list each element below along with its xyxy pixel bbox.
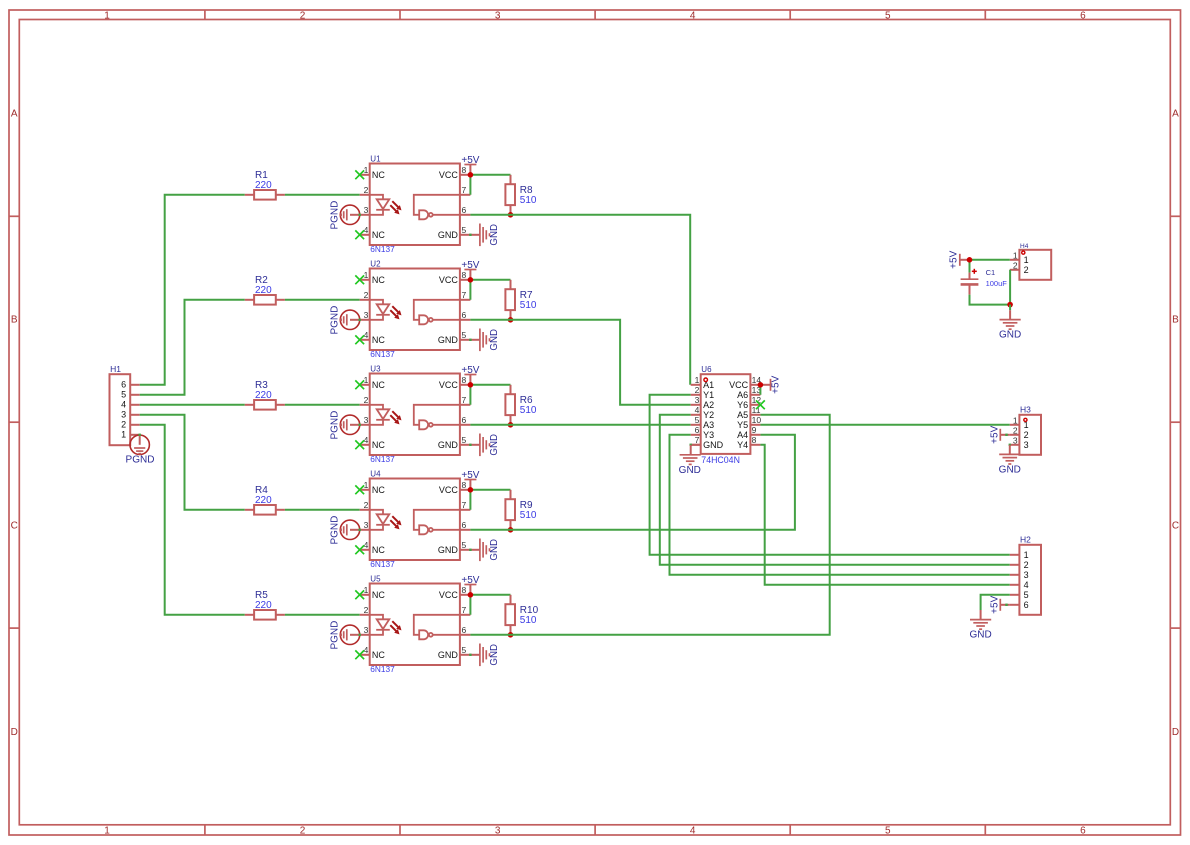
frame row labels bbox=[11, 109, 1180, 738]
svg-text:220: 220 bbox=[255, 600, 272, 611]
ground GND at U5 pin 5 bbox=[469, 644, 500, 667]
resistor R3 bbox=[245, 380, 285, 410]
NC mark U6 pin 12 bbox=[756, 400, 765, 409]
svg-text:GND: GND bbox=[999, 464, 1021, 475]
svg-text:220: 220 bbox=[255, 390, 272, 401]
svg-text:3: 3 bbox=[364, 415, 369, 425]
svg-text:4: 4 bbox=[364, 645, 369, 655]
wire R3 to U3 pin 2 bbox=[285, 404, 360, 406]
connector H1 bbox=[110, 364, 140, 445]
svg-text:GND: GND bbox=[489, 434, 500, 456]
wire net IN2 (H1.5 to R2) bbox=[140, 300, 245, 395]
NC mark U1 pin 4 bbox=[355, 230, 364, 239]
svg-text:2: 2 bbox=[1013, 425, 1018, 435]
svg-text:H4: H4 bbox=[1020, 243, 1029, 250]
svg-text:+5V: +5V bbox=[949, 250, 960, 268]
svg-text:U2: U2 bbox=[370, 260, 381, 269]
svg-text:A4: A4 bbox=[737, 430, 748, 440]
svg-text:GND: GND bbox=[438, 335, 459, 345]
svg-text:A: A bbox=[11, 109, 18, 120]
svg-text:6N137: 6N137 bbox=[370, 664, 395, 674]
svg-text:1: 1 bbox=[1024, 550, 1029, 560]
NC mark U2 pin 4 bbox=[355, 335, 364, 344]
svg-text:5: 5 bbox=[462, 225, 467, 235]
svg-text:2: 2 bbox=[695, 385, 700, 395]
supply +5V at U5 pin 8 bbox=[461, 575, 479, 595]
resistor R10 pullup bbox=[505, 595, 538, 635]
ground PGND at H1 pin 1 bbox=[126, 434, 155, 466]
svg-text:NC: NC bbox=[372, 485, 385, 495]
svg-text:C: C bbox=[11, 521, 18, 532]
svg-text:4: 4 bbox=[690, 825, 696, 836]
svg-text:GND: GND bbox=[489, 224, 500, 246]
svg-text:NC: NC bbox=[372, 335, 385, 345]
svg-text:VCC: VCC bbox=[439, 590, 459, 600]
junction R9 output bbox=[508, 527, 514, 533]
svg-text:Y1: Y1 bbox=[703, 390, 714, 400]
svg-text:GND: GND bbox=[489, 644, 500, 666]
ground GND at U1 pin 5 bbox=[469, 224, 500, 247]
svg-text:4: 4 bbox=[121, 400, 126, 410]
svg-text:A5: A5 bbox=[737, 410, 748, 420]
svg-text:PGND: PGND bbox=[329, 411, 340, 440]
svg-text:2: 2 bbox=[364, 185, 369, 195]
resistor R7 pullup bbox=[505, 280, 537, 320]
svg-text:4: 4 bbox=[1024, 580, 1029, 590]
svg-text:1: 1 bbox=[104, 825, 110, 836]
svg-text:6: 6 bbox=[1080, 10, 1086, 21]
svg-text:3: 3 bbox=[364, 310, 369, 320]
wire net IN4 (H1.3 to R4) bbox=[140, 415, 245, 510]
svg-text:PGND: PGND bbox=[329, 621, 340, 650]
svg-text:7: 7 bbox=[462, 605, 467, 615]
svg-text:C: C bbox=[1172, 521, 1179, 532]
svg-text:5: 5 bbox=[885, 825, 891, 836]
svg-text:PGND: PGND bbox=[126, 455, 155, 466]
resistor R5 bbox=[245, 590, 285, 620]
svg-text:5: 5 bbox=[1024, 590, 1029, 600]
wire net Y4 (U6.8 to H2.4) bbox=[760, 445, 1009, 585]
ground PGND at U1 pin 3 bbox=[329, 201, 361, 230]
svg-text:2: 2 bbox=[1013, 260, 1018, 270]
svg-text:510: 510 bbox=[520, 510, 537, 521]
connector H3 bbox=[1010, 405, 1041, 455]
resistor R4 bbox=[245, 485, 285, 515]
svg-text:GND: GND bbox=[489, 329, 500, 351]
resistor R6 pullup bbox=[505, 385, 537, 425]
ground GND at U3 pin 5 bbox=[469, 434, 500, 457]
svg-text:7: 7 bbox=[462, 185, 467, 195]
svg-text:220: 220 bbox=[255, 495, 272, 506]
svg-text:D: D bbox=[11, 727, 18, 738]
svg-text:4: 4 bbox=[690, 10, 696, 21]
supply +5V at U3 pin 8 bbox=[461, 365, 479, 385]
svg-text:5: 5 bbox=[695, 415, 700, 425]
supply +5V at H2 pin 6 bbox=[990, 595, 1010, 613]
NC mark U5 pin 1 bbox=[355, 590, 364, 599]
svg-text:6N137: 6N137 bbox=[370, 244, 395, 254]
svg-text:4: 4 bbox=[364, 540, 369, 550]
svg-text:4: 4 bbox=[364, 225, 369, 235]
wire net Y2 (U6.4 to H2.2) bbox=[660, 415, 1010, 565]
svg-text:4: 4 bbox=[695, 405, 700, 415]
ground PGND at U3 pin 3 bbox=[329, 411, 361, 440]
optocoupler U5 6N137 bbox=[360, 575, 471, 674]
svg-text:4: 4 bbox=[364, 435, 369, 445]
junction U4 VCC bbox=[468, 487, 474, 493]
ground PGND at U5 pin 3 bbox=[329, 621, 361, 650]
svg-text:NC: NC bbox=[372, 590, 385, 600]
svg-text:NC: NC bbox=[372, 650, 385, 660]
svg-text:2: 2 bbox=[1024, 265, 1029, 275]
svg-text:220: 220 bbox=[255, 180, 272, 191]
wire U6 A6 to +5V bbox=[759, 385, 761, 395]
junction U2 VCC bbox=[468, 277, 474, 283]
svg-text:GND: GND bbox=[438, 440, 459, 450]
svg-text:6: 6 bbox=[1080, 825, 1086, 836]
svg-text:6: 6 bbox=[462, 205, 467, 215]
wire net IN1 (H1.6 to R1) bbox=[140, 195, 245, 385]
svg-text:2: 2 bbox=[300, 10, 306, 21]
svg-text:1: 1 bbox=[1024, 255, 1029, 265]
svg-text:8: 8 bbox=[462, 585, 467, 595]
svg-text:3: 3 bbox=[1013, 435, 1018, 445]
svg-text:VCC: VCC bbox=[439, 170, 459, 180]
svg-text:510: 510 bbox=[520, 195, 537, 206]
svg-text:+5V: +5V bbox=[771, 375, 782, 393]
junction R8 output bbox=[508, 212, 514, 218]
svg-text:5: 5 bbox=[462, 330, 467, 340]
optocoupler U2 6N137 bbox=[360, 260, 471, 359]
svg-text:U6: U6 bbox=[701, 365, 712, 374]
svg-text:H3: H3 bbox=[1020, 405, 1031, 415]
wire +5V to H4.1 bbox=[970, 259, 1010, 261]
svg-text:A3: A3 bbox=[703, 420, 714, 430]
svg-text:Y6: Y6 bbox=[737, 400, 748, 410]
supply +5V at U2 pin 8 bbox=[461, 260, 479, 280]
wire net OUT1 (R8 to U6 A1) bbox=[470, 215, 690, 385]
NC mark U3 pin 4 bbox=[355, 440, 364, 449]
svg-text:C1: C1 bbox=[986, 268, 996, 277]
svg-text:5: 5 bbox=[885, 10, 891, 21]
svg-text:7: 7 bbox=[462, 395, 467, 405]
supply +5V at U6 pin 14 bbox=[760, 375, 781, 393]
wire H2.5 to GND bbox=[981, 595, 1010, 610]
wire net IN5 (H1.2 to R5) bbox=[140, 425, 245, 615]
svg-text:GND: GND bbox=[438, 650, 459, 660]
svg-text:1: 1 bbox=[364, 270, 369, 280]
svg-text:GND: GND bbox=[438, 545, 459, 555]
svg-text:+5V: +5V bbox=[990, 595, 1001, 613]
svg-text:VCC: VCC bbox=[439, 275, 459, 285]
svg-text:PGND: PGND bbox=[329, 516, 340, 545]
svg-text:8: 8 bbox=[462, 375, 467, 385]
svg-text:3: 3 bbox=[364, 520, 369, 530]
svg-text:2: 2 bbox=[300, 825, 306, 836]
junction R10 output bbox=[508, 632, 514, 638]
svg-text:NC: NC bbox=[372, 170, 385, 180]
svg-text:+5V: +5V bbox=[990, 425, 1001, 443]
svg-text:PGND: PGND bbox=[329, 201, 340, 230]
svg-text:6: 6 bbox=[1024, 600, 1029, 610]
junction R7 output bbox=[508, 317, 514, 323]
svg-text:H1: H1 bbox=[110, 364, 121, 374]
svg-text:GND: GND bbox=[703, 440, 724, 450]
wire net OUT4 (R9 to U6 A4) bbox=[470, 435, 795, 530]
svg-text:100uF: 100uF bbox=[986, 279, 1008, 288]
wire +5V to R pullup and U4 pin 7 bbox=[470, 490, 510, 510]
svg-text:H2: H2 bbox=[1020, 535, 1031, 545]
junction U3 VCC bbox=[468, 382, 474, 388]
svg-text:A6: A6 bbox=[737, 390, 748, 400]
svg-text:7: 7 bbox=[462, 500, 467, 510]
wire net Y5 (U6.10 to H3.1) bbox=[760, 424, 1009, 426]
svg-text:GND: GND bbox=[969, 630, 991, 641]
svg-text:B: B bbox=[1172, 315, 1179, 326]
NC mark U4 pin 1 bbox=[355, 485, 364, 494]
svg-text:6: 6 bbox=[695, 425, 700, 435]
svg-text:1: 1 bbox=[1013, 250, 1018, 260]
NC mark U3 pin 1 bbox=[355, 380, 364, 389]
wire +5V to R pullup and U5 pin 7 bbox=[470, 595, 510, 615]
svg-text:U1: U1 bbox=[370, 155, 381, 164]
svg-text:8: 8 bbox=[462, 480, 467, 490]
svg-text:6: 6 bbox=[462, 310, 467, 320]
capacitor C1 100uF bbox=[961, 268, 1008, 295]
svg-text:10: 10 bbox=[752, 415, 762, 425]
svg-text:GND: GND bbox=[679, 465, 701, 476]
svg-text:+5V: +5V bbox=[461, 575, 479, 586]
svg-text:510: 510 bbox=[520, 405, 537, 416]
svg-text:5: 5 bbox=[462, 435, 467, 445]
ground GND at U6 pin 7 bbox=[679, 444, 701, 476]
optocoupler U3 6N137 bbox=[360, 365, 471, 464]
svg-text:NC: NC bbox=[372, 380, 385, 390]
svg-text:1: 1 bbox=[121, 430, 126, 440]
junction U6 VCC bbox=[758, 382, 764, 388]
svg-text:5: 5 bbox=[121, 390, 126, 400]
junction R6 output bbox=[508, 422, 514, 428]
connector H2 bbox=[1010, 535, 1041, 615]
svg-text:6: 6 bbox=[462, 520, 467, 530]
svg-text:7: 7 bbox=[695, 435, 700, 445]
svg-text:+5V: +5V bbox=[461, 260, 479, 271]
svg-text:6: 6 bbox=[121, 380, 126, 390]
svg-text:2: 2 bbox=[364, 500, 369, 510]
svg-text:8: 8 bbox=[752, 435, 757, 445]
svg-text:220: 220 bbox=[255, 285, 272, 296]
NC mark U1 pin 1 bbox=[355, 170, 364, 179]
svg-text:3: 3 bbox=[695, 395, 700, 405]
svg-text:1: 1 bbox=[1013, 415, 1018, 425]
svg-text:+5V: +5V bbox=[461, 470, 479, 481]
svg-text:1: 1 bbox=[695, 375, 700, 385]
wire net IN3 (H1.4 to R3) bbox=[140, 404, 245, 406]
svg-text:510: 510 bbox=[520, 615, 537, 626]
svg-text:7: 7 bbox=[462, 290, 467, 300]
svg-text:2: 2 bbox=[1024, 560, 1029, 570]
svg-text:6: 6 bbox=[462, 415, 467, 425]
optocoupler U4 6N137 bbox=[360, 470, 471, 569]
svg-text:Y3: Y3 bbox=[703, 430, 714, 440]
svg-text:1: 1 bbox=[364, 375, 369, 385]
svg-text:+5V: +5V bbox=[461, 155, 479, 166]
ground PGND at U4 pin 3 bbox=[329, 516, 361, 545]
svg-text:PGND: PGND bbox=[329, 306, 340, 335]
svg-text:3: 3 bbox=[364, 625, 369, 635]
svg-text:D: D bbox=[1172, 727, 1179, 738]
svg-text:NC: NC bbox=[372, 275, 385, 285]
svg-text:GND: GND bbox=[999, 330, 1021, 341]
svg-text:Y5: Y5 bbox=[737, 420, 748, 430]
svg-text:3: 3 bbox=[121, 410, 126, 420]
wire net Y3 (U6.6 to H2.3) bbox=[670, 435, 1010, 575]
junction U1 VCC bbox=[468, 172, 474, 178]
svg-text:8: 8 bbox=[462, 165, 467, 175]
svg-text:510: 510 bbox=[520, 300, 537, 311]
svg-text:3: 3 bbox=[364, 205, 369, 215]
svg-text:GND: GND bbox=[438, 230, 459, 240]
svg-text:1: 1 bbox=[364, 585, 369, 595]
svg-text:2: 2 bbox=[1024, 430, 1029, 440]
svg-text:1: 1 bbox=[364, 480, 369, 490]
hex inverter U6 74HC04N bbox=[691, 365, 762, 465]
wire R5 to U5 pin 2 bbox=[285, 614, 360, 616]
supply +5V at U4 pin 8 bbox=[461, 470, 479, 490]
ground GND below C1 bbox=[999, 305, 1021, 341]
NC mark U2 pin 1 bbox=[355, 275, 364, 284]
svg-text:2: 2 bbox=[121, 420, 126, 430]
NC mark U4 pin 4 bbox=[355, 545, 364, 554]
wire net OUT3 (R6 to U6 A3) bbox=[470, 424, 690, 426]
svg-text:U3: U3 bbox=[370, 365, 381, 374]
NC mark U5 pin 4 bbox=[355, 650, 364, 659]
svg-text:8: 8 bbox=[462, 270, 467, 280]
svg-text:NC: NC bbox=[372, 545, 385, 555]
junction +5V node bbox=[967, 257, 973, 263]
svg-text:Y4: Y4 bbox=[737, 440, 748, 450]
ground GND at H2 pin 5 bbox=[969, 610, 991, 641]
svg-text:6N137: 6N137 bbox=[370, 454, 395, 464]
wire +5V to R pullup and U1 pin 7 bbox=[470, 175, 510, 195]
junction U5 VCC bbox=[468, 592, 474, 598]
svg-text:6N137: 6N137 bbox=[370, 349, 395, 359]
supply +5V at H3 pin 2 bbox=[990, 425, 1010, 443]
svg-text:74HC04N: 74HC04N bbox=[701, 455, 740, 465]
wire R1 to U1 pin 2 bbox=[285, 194, 360, 196]
svg-text:3: 3 bbox=[1024, 440, 1029, 450]
resistor R8 pullup bbox=[505, 175, 537, 215]
svg-text:4: 4 bbox=[364, 330, 369, 340]
svg-text:U5: U5 bbox=[370, 575, 381, 584]
wire H4.2 to ground node bbox=[1009, 270, 1011, 305]
svg-text:2: 2 bbox=[364, 395, 369, 405]
svg-text:GND: GND bbox=[489, 539, 500, 561]
svg-text:VCC: VCC bbox=[729, 380, 749, 390]
supply +5V at U1 pin 8 bbox=[461, 155, 479, 175]
svg-text:A2: A2 bbox=[703, 400, 714, 410]
svg-text:9: 9 bbox=[752, 425, 757, 435]
svg-text:5: 5 bbox=[462, 540, 467, 550]
svg-text:VCC: VCC bbox=[439, 485, 459, 495]
wire +5V to R pullup and U3 pin 7 bbox=[470, 385, 510, 405]
svg-text:1: 1 bbox=[364, 165, 369, 175]
svg-text:2: 2 bbox=[364, 290, 369, 300]
wire +5V down to C1 bbox=[969, 260, 971, 273]
wire R2 to U2 pin 2 bbox=[285, 299, 360, 301]
ground GND at H3 pin 3 bbox=[999, 444, 1021, 476]
wire C1 to ground node bbox=[970, 295, 1011, 305]
svg-text:3: 3 bbox=[495, 10, 501, 21]
wire net OUT5 (R10 to U6 A5) bbox=[470, 415, 829, 635]
connector H4 bbox=[1010, 243, 1051, 280]
svg-text:A: A bbox=[1172, 109, 1179, 120]
svg-text:Y2: Y2 bbox=[703, 410, 714, 420]
svg-text:3: 3 bbox=[1024, 570, 1029, 580]
svg-text:2: 2 bbox=[364, 605, 369, 615]
ground GND at U2 pin 5 bbox=[469, 329, 500, 352]
svg-text:VCC: VCC bbox=[439, 380, 459, 390]
wire net Y1 (U6.2 to H2.1) bbox=[650, 395, 1010, 555]
svg-text:NC: NC bbox=[372, 440, 385, 450]
ground GND at U4 pin 5 bbox=[469, 539, 500, 562]
svg-text:+5V: +5V bbox=[461, 365, 479, 376]
wire +5V to R pullup and U2 pin 7 bbox=[470, 280, 510, 300]
svg-text:1: 1 bbox=[104, 10, 110, 21]
svg-text:B: B bbox=[11, 315, 18, 326]
svg-text:U4: U4 bbox=[370, 470, 381, 479]
resistor R9 pullup bbox=[505, 490, 537, 530]
resistor R2 bbox=[245, 275, 285, 305]
svg-text:6N137: 6N137 bbox=[370, 559, 395, 569]
supply +5V at H4 pin 1 bbox=[949, 250, 970, 268]
svg-text:5: 5 bbox=[462, 645, 467, 655]
resistor R1 bbox=[245, 170, 285, 200]
svg-text:6: 6 bbox=[462, 625, 467, 635]
wire net OUT2 (R7 to U6 A2) bbox=[470, 320, 690, 405]
ground PGND at U2 pin 3 bbox=[329, 306, 361, 335]
junction ground node bbox=[1007, 302, 1013, 308]
svg-text:NC: NC bbox=[372, 230, 385, 240]
optocoupler U1 6N137 bbox=[360, 155, 471, 254]
wire R4 to U4 pin 2 bbox=[285, 509, 360, 511]
svg-text:3: 3 bbox=[495, 825, 501, 836]
